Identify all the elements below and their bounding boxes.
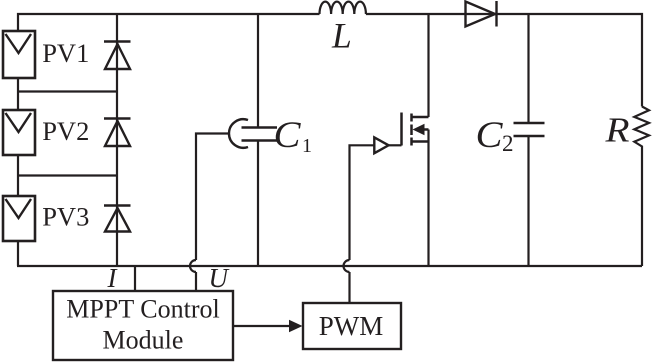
wire top bus right segment <box>495 14 642 107</box>
svg-text:U: U <box>209 263 230 293</box>
gate driver buffer triangle <box>374 137 388 153</box>
diode D1 bypass <box>104 42 131 70</box>
wire PV string verticals <box>17 78 19 266</box>
svg-text:PV3: PV3 <box>42 202 89 232</box>
wire MOSFET source vertical <box>427 130 429 267</box>
wire C1 verticals <box>257 14 259 266</box>
inductor L <box>320 2 366 14</box>
svg-text:PV1: PV1 <box>42 38 89 68</box>
wire PWM riser hop over bus <box>344 260 350 303</box>
arrowhead <box>289 320 303 333</box>
svg-text:Module: Module <box>103 326 184 355</box>
diode D2 bypass <box>104 119 131 147</box>
svg-text:I: I <box>107 263 119 293</box>
wire bypass diode string vertical <box>116 14 118 266</box>
wire MOSFET drain vertical <box>427 14 429 117</box>
wire tap PV2-PV3 to diode string <box>18 174 117 176</box>
svg-text:PV2: PV2 <box>42 116 89 146</box>
svg-text:PWM: PWM <box>319 311 384 341</box>
MPPT Control Module box <box>53 291 233 360</box>
PV panel PV2 <box>3 110 35 155</box>
wire C2 verticals <box>527 14 529 266</box>
wire voltage sense U <box>190 134 230 292</box>
svg-text:2: 2 <box>502 131 514 156</box>
diode D4 output <box>466 1 497 27</box>
PV panel PV3 <box>3 196 35 241</box>
capacitor C2 <box>514 123 545 136</box>
wire top bus middle segment <box>366 13 496 15</box>
svg-text:1: 1 <box>302 135 312 157</box>
MOSFET body arrow <box>413 124 425 135</box>
label MPPT Control Module <box>66 295 219 355</box>
wire bottom bus <box>17 265 642 267</box>
svg-text:C: C <box>476 115 504 156</box>
svg-text:L: L <box>331 16 352 56</box>
label C1 <box>274 115 313 157</box>
wire tap PV1-PV2 to diode string <box>18 90 117 92</box>
diode D3 bypass <box>104 206 131 232</box>
resistor R zigzag <box>634 107 649 267</box>
wire top bus left segment <box>18 14 320 32</box>
capacitor C1 <box>242 128 278 141</box>
MOSFET Q1 <box>402 113 429 146</box>
PV panel PV1 <box>3 31 35 78</box>
label C2 <box>476 115 514 156</box>
voltage sense hook arc around C1 <box>229 119 248 148</box>
wire gate <box>350 145 402 260</box>
svg-text:C: C <box>274 115 302 156</box>
wire current sense I <box>134 266 136 291</box>
arrow MPPT to PWM <box>233 325 291 327</box>
PWM box <box>303 303 401 349</box>
svg-text:MPPT Control: MPPT Control <box>66 295 219 324</box>
svg-text:R: R <box>604 111 629 149</box>
